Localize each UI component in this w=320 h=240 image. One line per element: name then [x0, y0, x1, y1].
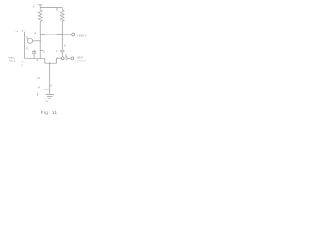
svg-text:r u: r u: [45, 99, 49, 103]
input terminal circle: [27, 38, 32, 43]
wire jog down: [45, 58, 61, 63]
svg-text:3: 3: [64, 43, 66, 47]
terminal output circle: [72, 33, 75, 36]
svg-text:c,: c,: [26, 46, 29, 50]
stub C tick: [40, 50, 43, 52]
resistor R1: [38, 7, 42, 23]
wire grid leak: [24, 32, 26, 59]
svg-text:+|: +|: [37, 85, 40, 89]
wire output stub right: [57, 34, 63, 36]
svg-text:c: c: [22, 64, 24, 67]
junction dot center: [49, 63, 50, 64]
tick to column: [44, 88, 50, 90]
terminal circle mid: [61, 57, 64, 60]
wire output stub left: [40, 34, 45, 36]
wire left column: [39, 24, 41, 59]
capacitor C2: [60, 50, 64, 56]
svg-text:+: +: [22, 60, 24, 63]
wire crossing faint: [45, 34, 56, 36]
svg-text:k: k: [51, 84, 53, 88]
junction dot output: [62, 34, 63, 35]
wire right column upper: [61, 24, 63, 50]
svg-text:+: +: [33, 5, 35, 9]
junction dot base: [40, 40, 41, 41]
supply terminal +B: [38, 5, 43, 8]
ground: [45, 94, 54, 98]
svg-text:R: R: [56, 8, 59, 12]
svg-text:e,: e,: [26, 35, 29, 39]
battery E: [66, 56, 71, 60]
svg-text:c: c: [43, 49, 45, 53]
svg-text:-+: -+: [15, 29, 18, 33]
capacitor C1: [32, 50, 36, 58]
wire input to base: [33, 40, 41, 42]
wire emitter line: [25, 57, 45, 59]
resistor R2: [60, 7, 64, 23]
svg-text:a: a: [34, 31, 36, 35]
wire center column: [49, 63, 51, 94]
underline bias: [77, 60, 86, 62]
svg-text:R: R: [38, 76, 40, 80]
wire to output terminal: [62, 34, 71, 36]
svg-text:c: c: [56, 49, 58, 53]
svg-text:+150 V: +150 V: [77, 33, 87, 37]
svg-text:|r: |r: [22, 29, 24, 33]
svg-text:E: E: [37, 93, 39, 97]
svg-text:-90 V: -90 V: [77, 56, 84, 60]
svg-text:Fig. 11: Fig. 11: [41, 110, 58, 115]
svg-text:no.1: no.1: [9, 59, 16, 63]
wire top rail: [40, 6, 62, 8]
terminal circle right: [71, 57, 74, 60]
svg-text:E: E: [65, 53, 67, 57]
